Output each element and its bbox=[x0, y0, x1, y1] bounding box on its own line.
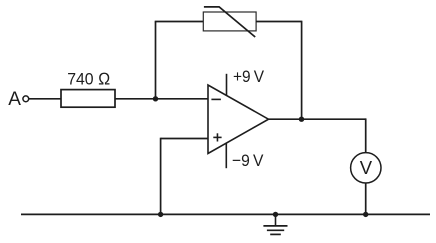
wire resistor to op-amp inverting input bbox=[115, 98, 208, 100]
svg-text:A: A bbox=[8, 89, 21, 110]
node junction non-inverting to bus bbox=[158, 212, 163, 217]
svg-text:+9 V: +9 V bbox=[233, 67, 265, 86]
voltmeter V body bbox=[351, 153, 381, 183]
node junction feedback/input bbox=[153, 96, 158, 101]
wire feedback top right bbox=[256, 21, 302, 23]
node junction voltmeter to bus bbox=[363, 212, 368, 217]
wire voltmeter bottom bbox=[365, 183, 367, 214]
wire non-inverting input horizontal bbox=[161, 138, 208, 140]
wire op-amp output bbox=[269, 118, 366, 120]
wire feedback top left bbox=[155, 21, 204, 23]
wire feedback vertical left bbox=[155, 22, 157, 99]
terminal A (open circle) bbox=[23, 96, 29, 102]
svg-text:740 Ω: 740 Ω bbox=[67, 70, 110, 89]
ground bar 2 bbox=[267, 229, 284, 231]
svg-text:V: V bbox=[360, 157, 373, 178]
ground bar 3 bbox=[270, 233, 281, 235]
ground bar 1 bbox=[263, 225, 287, 227]
op-amp U1 triangle bbox=[208, 85, 269, 154]
node output junction bbox=[299, 117, 304, 122]
op-amp minus sign bbox=[211, 98, 221, 100]
node junction ground to bus bbox=[273, 212, 278, 217]
wire voltmeter top bbox=[365, 118, 367, 152]
wire ground bus bbox=[21, 213, 430, 215]
resistor R1 body bbox=[61, 90, 115, 108]
wire feedback vertical right bbox=[301, 21, 303, 120]
op-amp V- supply stub bbox=[225, 143, 227, 168]
op-amp plus sign bbox=[213, 136, 221, 138]
svg-text:−9 V: −9 V bbox=[232, 151, 264, 170]
ground stub bbox=[275, 214, 277, 226]
wire A to resistor bbox=[29, 98, 61, 100]
thermistor RT body bbox=[203, 12, 256, 31]
wire non-inverting input vertical bbox=[160, 138, 162, 215]
thermistor RT diagonal stroke bbox=[204, 7, 255, 37]
op-amp V+ supply stub bbox=[226, 74, 228, 96]
